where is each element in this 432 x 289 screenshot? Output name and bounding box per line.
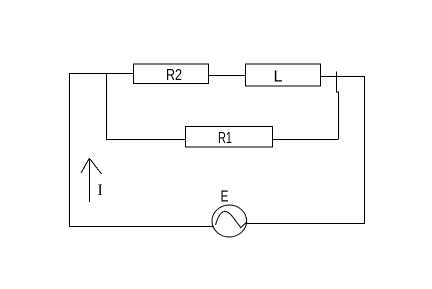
current arrow I shaft [89, 158, 91, 202]
resistor R2 [134, 64, 209, 84]
svg-text:E: E [221, 189, 229, 206]
current arrow I head left wing [81, 158, 90, 173]
wire R1 right horizontal [272, 139, 339, 141]
svg-text:I: I [98, 182, 103, 199]
wire left vertical side [69, 73, 71, 227]
wire bottom-left horizontal (to source E left terminal) [69, 226, 214, 228]
wire top-left horizontal (node A to R2 left pin) [69, 73, 134, 75]
wire branch vertical left (top node down to R1 level) [106, 73, 108, 139]
current arrow I head right wing [90, 159, 102, 174]
svg-text:R2: R2 [166, 67, 182, 84]
source E circle (AC source) [212, 205, 247, 237]
svg-text:L: L [274, 69, 283, 86]
wire L to top-right corner [320, 76, 365, 78]
wire bottom-right horizontal (source E right terminal to corner) [246, 223, 365, 225]
sine wave symbol inside source E [216, 211, 247, 227]
svg-text:R1: R1 [218, 130, 232, 147]
wire R1 left horizontal [106, 139, 186, 141]
resistor R1 [186, 127, 273, 148]
wire branch vertical right (R1 level up to top wire, small stub above) [337, 72, 339, 140]
inductor L [246, 64, 321, 86]
wire between R2 and L [208, 75, 246, 77]
wire right vertical side [364, 76, 366, 224]
